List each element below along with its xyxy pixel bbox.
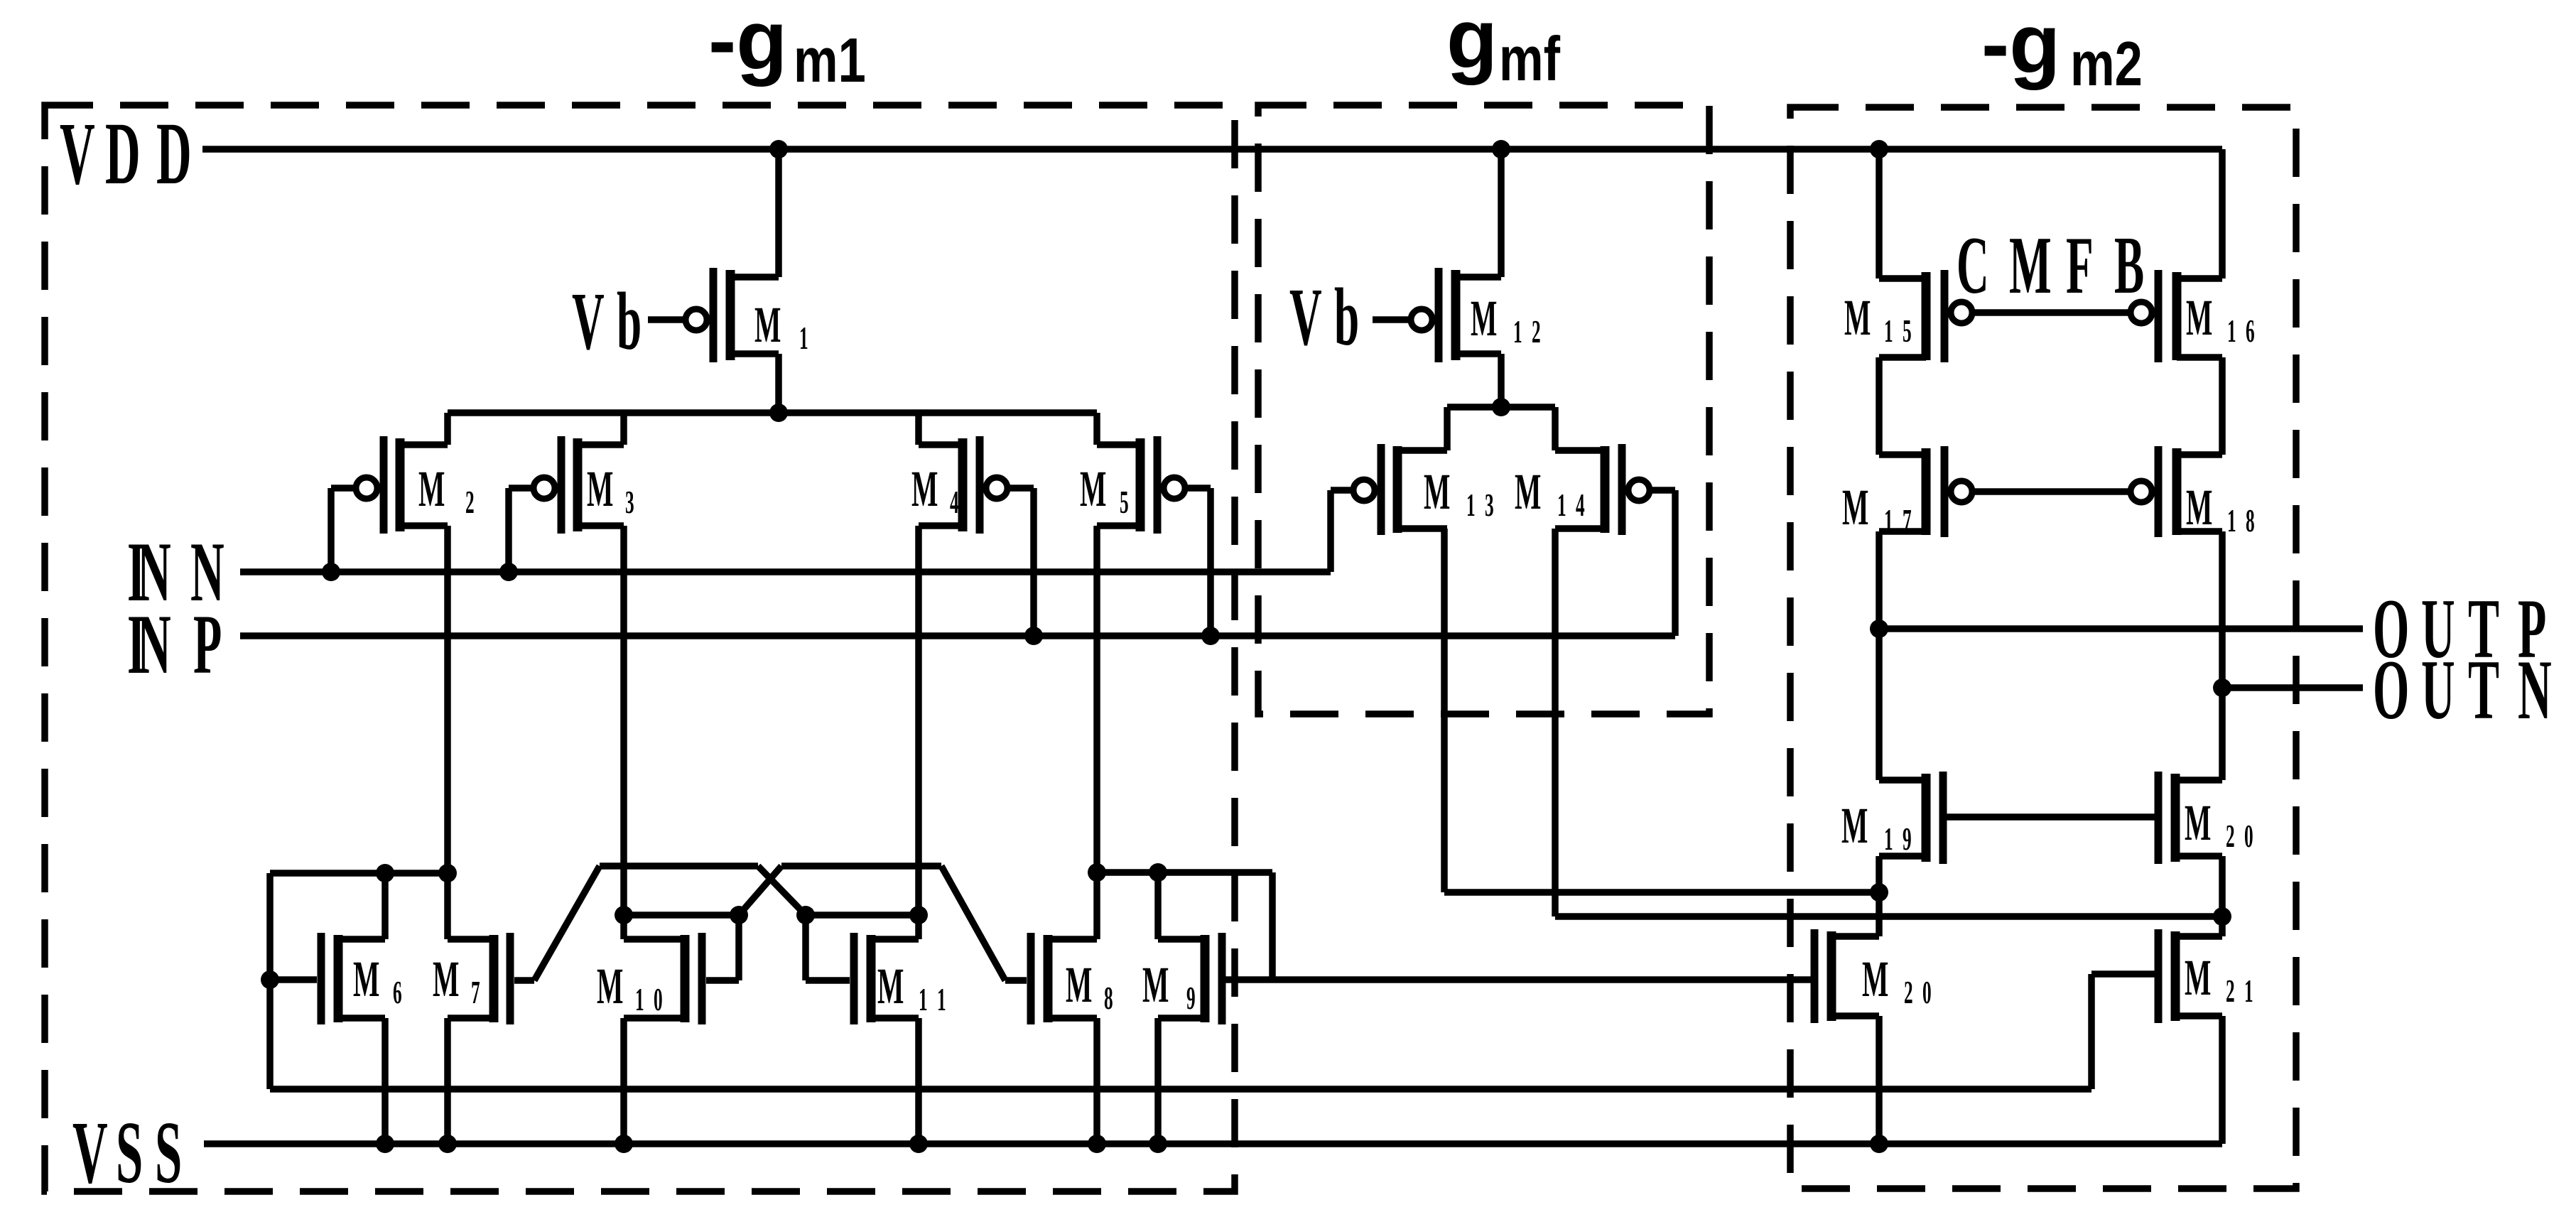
node VDD-M1 junction [769, 140, 788, 158]
wire M15-M17 column [1876, 357, 1883, 455]
wire M13-M14 source rail [1447, 404, 1555, 411]
wire long gate line from M6 node [270, 1086, 2091, 1093]
svg-text:m1: m1 [794, 25, 866, 94]
transistor M18 [2131, 446, 2222, 537]
svg-text:M: M [911, 460, 938, 518]
node M1 drain node [769, 404, 788, 422]
wire M11 gate riser [802, 915, 809, 980]
node M3-M10 drain junction [615, 906, 633, 924]
node M5-M8 drain junction [1088, 863, 1106, 882]
wire M3 gate stub [509, 485, 534, 492]
wire CMFB gate wire [1971, 309, 2131, 316]
transistor M19 [1879, 772, 1943, 864]
transistor M15 [1879, 270, 1972, 362]
wire M4 drain column [915, 526, 922, 915]
wire cross diagonal B1-A2 [739, 866, 781, 915]
label gmf title [1446, 0, 1560, 94]
svg-text:9: 9 [1186, 980, 1196, 1017]
wire M19-M20 gate wire [1943, 813, 2158, 821]
wire M3 drain column [620, 526, 627, 939]
wire M8 drain riser [1093, 872, 1100, 939]
svg-text:-g: -g [1981, 0, 2060, 91]
svg-text:1: 1 [799, 320, 808, 357]
svg-text:2: 2 [465, 485, 475, 521]
wire M2 top riser [444, 413, 451, 445]
wire M19 drain riser [1876, 856, 1883, 892]
node VSS-M7 junction [438, 1135, 457, 1153]
wire M8 gate nub [1005, 977, 1027, 984]
wire M6 diode rail [270, 870, 448, 877]
wire M13 drain to OUTP node [1444, 889, 1879, 896]
svg-text:M: M [1424, 463, 1450, 521]
svg-text:3: 3 [625, 485, 634, 521]
wire M10 gate nub [706, 977, 739, 984]
transistor M14 [1555, 444, 1650, 535]
wire M10 gate riser [735, 915, 742, 980]
transistor M13 [1353, 444, 1447, 535]
dashed box -gm2 block [1790, 107, 2296, 1189]
wire M2 gate riser to INN [328, 488, 335, 572]
node INP-M5 junction [1201, 627, 1220, 645]
wire OUTN line [2222, 684, 2363, 691]
label -gm1 title [708, 0, 866, 95]
transistor M20 (bottom left of -gm2) [1814, 929, 1879, 1023]
wire M14 gate riser from INP [1672, 490, 1679, 636]
wire M14 drain to OUTN node [1555, 913, 2222, 920]
wire VSS rail [204, 1140, 2222, 1147]
transistor M8 [1031, 933, 1097, 1024]
wire cross-couple rail B1 [624, 912, 739, 919]
svg-text:M: M [1080, 460, 1106, 518]
wire M10 source riser [620, 1018, 627, 1144]
node M11 gate junction [796, 906, 815, 924]
wire M6 gate nub [270, 976, 317, 983]
wire M4 top riser [915, 413, 922, 445]
node M4-M11 drain junction [909, 906, 928, 924]
svg-text:m2: m2 [2070, 28, 2143, 98]
wire source rail of M2-M5 row [448, 409, 1097, 416]
svg-text:M: M [353, 951, 379, 1008]
wire M6 source riser [381, 1018, 389, 1144]
wire M1 drain riser [775, 354, 782, 413]
wire M20 drain riser [2219, 856, 2226, 916]
transistor M5 [1097, 436, 1185, 534]
wire M21 source riser to VSS [2219, 1016, 2226, 1144]
node VSS-M8 junction [1088, 1135, 1106, 1153]
wire M9 source riser [1154, 1018, 1162, 1144]
svg-text:g: g [1446, 0, 1498, 86]
wire M2 gate stub [331, 485, 357, 492]
wire M7 gate nub [514, 977, 534, 984]
wire VDD rail [202, 146, 2222, 153]
svg-text:5: 5 [1120, 485, 1129, 521]
node INN-M2 junction [322, 563, 340, 581]
wire Vb stub to M12 gate [1373, 316, 1412, 323]
wire M3 gate riser to INN [505, 488, 512, 572]
wire M9 gate line to M20 [1225, 976, 1814, 983]
wire M7 source riser [444, 1018, 451, 1144]
wire VDD to M16 riser [2219, 149, 2226, 278]
svg-text:M: M [433, 951, 459, 1008]
svg-text:M: M [1142, 956, 1169, 1014]
svg-text:8: 8 [1104, 980, 1113, 1017]
wire M6 left loop vertical [266, 873, 274, 1089]
wire M21 gate riser [2088, 974, 2095, 1089]
wire Vb stub to M1 gate [648, 316, 686, 323]
wire M21 gate wire [2091, 970, 2158, 978]
wire M13 gate stub [1331, 487, 1354, 494]
dashed box -gm1 block [45, 105, 1235, 1191]
wire M9 drain riser [1154, 872, 1162, 939]
transistor M21 [2158, 929, 2222, 1023]
node OUTN tap [2213, 678, 2231, 697]
node OUTN lower junction [2213, 907, 2231, 926]
wire M11 drain riser [915, 915, 922, 939]
svg-text:M: M [877, 958, 904, 1015]
transistor M16 [2131, 270, 2222, 362]
svg-text:M: M [587, 460, 613, 518]
svg-text:M: M [2185, 949, 2211, 1007]
wire M12 source riser to VDD [1498, 149, 1505, 277]
wire M5 top riser [1093, 413, 1100, 445]
wire M17-M19 column [1876, 531, 1883, 780]
svg-text:M: M [1841, 797, 1868, 855]
node OUTP tap [1870, 620, 1888, 638]
wire M5 gate stub [1184, 485, 1211, 492]
wire M17-M18 gate wire [1971, 488, 2131, 495]
svg-text:4: 4 [950, 485, 959, 521]
svg-text:M: M [2185, 794, 2211, 852]
label -gm2 title [1981, 0, 2143, 99]
wire M9 gate loop riser [1269, 872, 1276, 980]
transistor M2 [356, 436, 448, 534]
node VDD-M15 junction [1870, 140, 1888, 158]
wire M5 drain column [1093, 526, 1100, 872]
wire M4 gate stub [1007, 485, 1034, 492]
wire M2 drain column [444, 526, 451, 939]
svg-text:VSS: VSS [72, 1103, 182, 1201]
wire M20 source riser [1876, 1016, 1883, 1144]
wire M13 drain column [1441, 529, 1448, 892]
wire M3 top riser [620, 413, 627, 445]
node OUTP lower junction [1870, 883, 1888, 902]
transistor M1 [686, 268, 779, 362]
transistor M17 [1879, 446, 1972, 537]
node M6 drain junction [376, 864, 394, 882]
wire cross-couple rail A1 [600, 862, 758, 870]
svg-text:VDD: VDD [60, 104, 192, 202]
wire M16-M18 column [2219, 357, 2226, 455]
transistor M10 [624, 933, 702, 1024]
transistor M7 [448, 933, 510, 1024]
dashed box gmf block [1258, 105, 1709, 714]
node M10 gate junction [730, 906, 748, 924]
transistor M6 [321, 933, 385, 1024]
svg-text:M: M [1844, 289, 1871, 347]
node INN-M3 junction [499, 563, 518, 581]
wire INP line [240, 632, 1675, 639]
svg-text:M: M [2186, 479, 2212, 536]
transistor M11 [854, 933, 919, 1024]
node M6 gate tap [261, 970, 279, 989]
transistor M20 (right column) [2158, 772, 2222, 864]
svg-text:M: M [1842, 479, 1868, 536]
wire M14 drain column [1552, 529, 1559, 916]
node VDD-M12 junction [1492, 140, 1510, 158]
wire M14 source drop [1552, 407, 1559, 450]
svg-text:M: M [2186, 289, 2212, 347]
svg-text:M: M [1471, 290, 1497, 347]
wire M7 gate diagonal [534, 866, 600, 980]
svg-text:mf: mf [1499, 23, 1560, 93]
wire M14 gate stub [1649, 487, 1675, 494]
wire M6 drain riser [381, 873, 389, 939]
node VSS-M10 junction [615, 1135, 633, 1153]
wire M13 gate riser from INN [1327, 490, 1334, 572]
svg-text:M: M [597, 958, 623, 1015]
svg-text:M: M [1515, 463, 1541, 521]
wire M11 gate nub [806, 977, 850, 984]
node VSS-M20 junction [1870, 1135, 1888, 1153]
wire M21 drain riser [2219, 916, 2226, 936]
wire VDD to M15 column [1876, 149, 1883, 278]
node M9 drain junction [1149, 863, 1167, 882]
wire M13 source drop [1444, 407, 1451, 450]
svg-text:CMFB: CMFB [1957, 220, 2144, 311]
svg-text:7: 7 [471, 975, 480, 1011]
svg-text:6: 6 [393, 975, 402, 1011]
node VSS-M9 junction [1149, 1135, 1167, 1153]
transistor M12 [1411, 268, 1501, 362]
node INP-M4 junction [1024, 627, 1043, 645]
svg-text:M: M [418, 460, 445, 518]
wire M8 source riser [1093, 1018, 1100, 1144]
wire cross-couple rail A2 [781, 862, 941, 870]
node VSS-M6 junction [376, 1135, 394, 1153]
svg-text:M: M [1862, 951, 1888, 1008]
node VSS-M11 junction [909, 1135, 928, 1153]
wire M4 gate riser to INP [1030, 488, 1037, 636]
wire M1 source riser to VDD [775, 149, 782, 277]
wire M8-M9 drain rail [1097, 869, 1272, 876]
wire M20 drain riser to OUTP node [1876, 892, 1883, 936]
wire M5 gate riser to INP [1207, 488, 1214, 636]
wire M12 drain riser [1498, 354, 1505, 407]
svg-text:M: M [1066, 956, 1092, 1014]
transistor M9 [1158, 933, 1222, 1024]
wire cross-couple rail B2 [806, 912, 919, 919]
wire M18-M20 column [2219, 531, 2226, 780]
wire OUTP line [1879, 625, 2363, 632]
wire M8 gate diagonal [941, 866, 1005, 980]
transistor M4 [919, 436, 1007, 534]
transistor M3 [534, 436, 624, 534]
node M2-M7 drain junction [438, 864, 457, 882]
wire cross diagonal A1-B2 [758, 866, 806, 915]
wire M11 source riser [915, 1018, 922, 1144]
svg-text:-g: -g [708, 0, 787, 87]
wire INN line [240, 568, 1331, 575]
node M12 drain node [1492, 398, 1510, 416]
svg-text:M: M [754, 296, 781, 354]
